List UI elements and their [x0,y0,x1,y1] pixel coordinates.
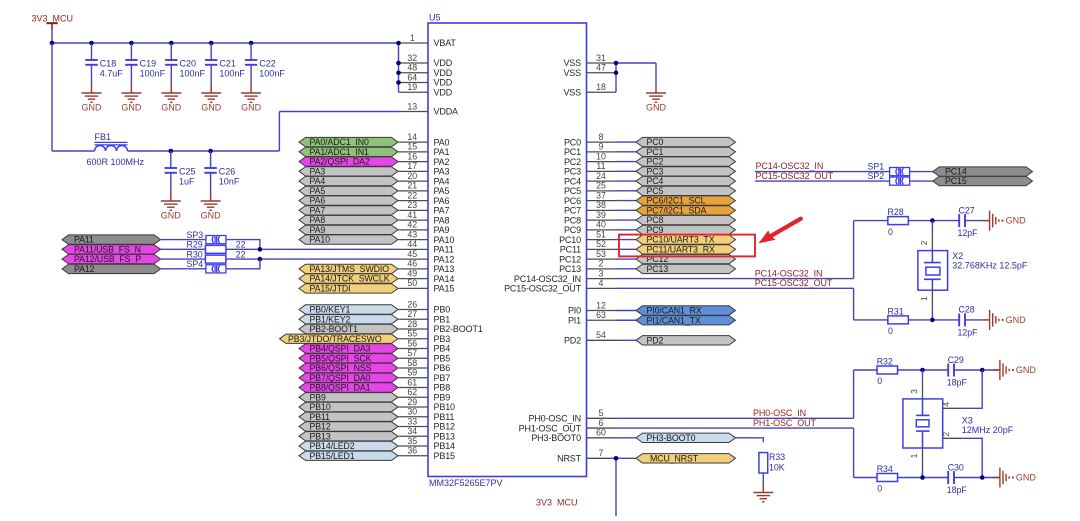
svg-text:C27: C27 [959,205,975,215]
svg-text:10nF: 10nF [219,177,240,187]
svg-text:PH3-BOOT0: PH3-BOOT0 [531,433,581,443]
svg-text:8: 8 [599,132,604,142]
svg-text:40: 40 [596,220,606,230]
wire pin6 PH1-OSC_OUT to X3 [616,428,877,477]
svg-text:PA13: PA13 [434,264,455,274]
svg-text:3: 3 [599,268,604,278]
svg-text:44: 44 [407,239,417,249]
svg-text:57: 57 [407,348,417,358]
wire PA12/USB_FS_P flag to R30 [161,258,206,260]
svg-text:PC8: PC8 [647,215,664,225]
net label PC15-OSC32_OUT (osc) [755,278,833,288]
port flag PB6/QSPI_NSS [299,363,398,373]
svg-text:PA3: PA3 [434,167,450,177]
svg-text:PA3: PA3 [310,166,326,176]
pin 16 PA2 [399,151,450,166]
wire pin to PC10/UART3_TX flag [616,239,636,241]
svg-text:PB6: PB6 [434,363,451,373]
pin 42 PA9 [399,220,450,235]
svg-text:PA0: PA0 [434,137,450,147]
port flag PB9 [299,392,398,402]
pin 12 PI0 [568,300,616,315]
svg-text:R30: R30 [187,249,203,259]
svg-text:3: 3 [910,389,919,394]
svg-text:62: 62 [407,387,417,397]
svg-text:PC11: PC11 [560,245,581,255]
svg-text:18pF: 18pF [947,378,968,388]
pin 45 PA12 [399,249,455,264]
svg-text:PB10: PB10 [434,402,456,412]
svg-text:PB12: PB12 [310,422,331,432]
port flag PA14/JTCK_SWCLK [299,274,398,284]
pin 38 PC7 [564,200,616,215]
pin 27 PB1 [399,309,451,324]
port flag PC7/I2C1_SDA [636,205,736,215]
svg-text:PB12: PB12 [434,422,456,432]
svg-text:PA15: PA15 [434,284,455,294]
svg-text:2: 2 [942,431,951,436]
pin 63 PI1 [568,310,616,325]
svg-text:SP4: SP4 [187,259,204,269]
svg-text:54: 54 [596,330,606,340]
svg-text:PC14-OSC32_IN: PC14-OSC32_IN [755,268,823,278]
port flag PI0/CAN1_RX [636,306,736,316]
junction X3 pin3 node [920,368,925,373]
capacitor C30 18pF [947,462,968,495]
svg-text:25: 25 [596,181,606,191]
svg-text:16: 16 [407,151,417,161]
pin 29 PB10 [399,397,456,412]
svg-text:R28: R28 [888,207,904,217]
wire R30 to pin PA12 [226,258,399,260]
svg-text:PC3: PC3 [647,166,664,176]
junction NRST [614,456,619,461]
svg-text:32: 32 [407,53,417,63]
ground right of C30 [993,468,1037,488]
resistor R33 10K [759,452,785,473]
pin 1 VBAT [399,33,457,48]
svg-text:SP2: SP2 [868,171,885,181]
svg-text:37: 37 [596,190,606,200]
svg-text:9: 9 [599,142,604,152]
capacitor C18 4.7uF [85,43,123,84]
svg-text:PB2-BOOT1: PB2-BOOT1 [310,324,359,334]
svg-text:C30: C30 [948,462,964,472]
svg-text:1uF: 1uF [179,177,195,187]
svg-text:PB15: PB15 [434,451,456,461]
svg-text:FB1: FB1 [95,132,112,142]
svg-text:C29: C29 [948,355,964,365]
svg-text:C22: C22 [259,59,276,69]
svg-text:53: 53 [596,249,606,259]
svg-text:PA7: PA7 [434,206,450,216]
svg-text:GND: GND [646,102,667,112]
svg-text:PC4: PC4 [564,176,581,186]
junction X3 pin1 node [920,475,925,480]
svg-text:PB6/QSPI_NSS: PB6/QSPI_NSS [310,363,372,373]
svg-text:VSS: VSS [563,58,581,68]
ground below C20 [161,84,182,113]
svg-text:12pF: 12pF [958,328,979,338]
svg-text:C26: C26 [219,167,236,177]
svg-text:C21: C21 [219,59,236,69]
svg-text:PA2: PA2 [434,157,450,167]
wire pin to PI1/CAN1_TX flag [616,319,636,321]
junction X3 pin2 node [980,475,985,480]
junction C25 at VDDA rail [169,149,174,154]
ground below R33 [753,483,773,502]
wire PC14-OSC32_IN to SP1 [755,171,890,173]
junction C26 at VDDA rail [208,149,213,154]
svg-text:100nF: 100nF [180,69,206,79]
svg-text:PB1/KEY2: PB1/KEY2 [310,314,351,324]
port flag PC11/UART3_RX [636,244,736,254]
svg-text:PC14-OSC32_IN: PC14-OSC32_IN [514,274,581,284]
svg-text:NRST: NRST [557,454,582,464]
port flag PC0 [636,137,736,147]
port flag PB5/QSPI_SCK [299,353,398,363]
pin 36 PB15 [399,446,456,461]
port flag PA2/QSPI_DA2 [299,157,398,167]
svg-text:PC15-OSC32_OUT: PC15-OSC32_OUT [504,284,582,294]
port flag PB2-BOOT1 [299,324,398,334]
svg-text:23: 23 [407,200,417,210]
svg-text:PI1: PI1 [568,315,581,325]
port flag PA11 [62,235,161,245]
crystal X2 32.768KHz 12.5pF [918,221,1028,320]
svg-text:PA5: PA5 [310,186,326,196]
svg-text:45: 45 [407,249,417,259]
svg-text:PA15/JTDI: PA15/JTDI [310,283,351,293]
svg-text:PA0/ADC1_IN0: PA0/ADC1_IN0 [310,137,369,147]
svg-text:22: 22 [407,190,417,200]
svg-text:PB7/QSPI_DA0: PB7/QSPI_DA0 [310,373,371,383]
svg-text:PC7: PC7 [564,206,581,216]
ground right of C28 [983,310,1027,330]
svg-text:GND: GND [1016,365,1037,375]
svg-text:26: 26 [407,299,417,309]
wire pin to PI0/CAN1_RX flag [616,310,636,312]
port flag PB12 [299,422,398,432]
ground below C25 [161,192,182,221]
pin 2 PC13 [559,259,616,274]
pin 33 PB12 [399,416,456,431]
svg-text:PB2-BOOT1: PB2-BOOT1 [434,324,483,334]
wire R32 to C29 [898,369,949,371]
svg-text:VDD: VDD [434,78,453,88]
svg-text:PC13: PC13 [647,264,669,274]
svg-text:PC4: PC4 [647,176,664,186]
svg-text:12: 12 [596,300,606,310]
wire pin to PC5 flag [616,190,636,192]
svg-text:41: 41 [407,210,417,220]
ferrite bead FB1 600R 100MHz [87,132,145,167]
pin 50 PA15 [399,278,455,293]
pin 57 PB5 [399,348,451,363]
svg-text:5: 5 [599,408,604,418]
pin 52 PC11 [560,239,616,254]
svg-text:PC2: PC2 [564,157,581,167]
svg-text:PA5: PA5 [434,186,450,196]
pin 19 VDD [399,82,453,97]
svg-text:PC1: PC1 [564,147,581,157]
port flag PB14/LED2 [299,441,398,451]
wire pin3 PC14-OSC32_IN to X2 [616,221,888,279]
svg-text:PB4/QSPI_DA3: PB4/QSPI_DA3 [310,344,371,354]
wire pin5 PH0-OSC_IN to X3 [616,370,877,418]
svg-text:PC10/UART3_TX: PC10/UART3_TX [647,235,715,245]
wire SP1 to PC14 flag [910,171,933,173]
wire 3V3 rail down to FB1 [52,43,95,151]
wire pin4 PC15-OSC32_OUT to X2 [616,288,888,320]
pin 6 PH1-OSC_OUT [519,418,616,433]
svg-text:38: 38 [596,200,606,210]
svg-text:28: 28 [407,319,417,329]
svg-text:GND: GND [201,210,222,220]
port flag PB13 [299,431,398,441]
junction at power port [50,41,55,46]
svg-text:1: 1 [910,453,919,458]
port flag PA12/USB_FS_P [62,254,161,264]
svg-text:PC0: PC0 [564,137,581,147]
pin 3 PC14-OSC32_IN [514,268,616,283]
pin 25 PC5 [564,181,616,196]
svg-text:C25: C25 [179,167,196,177]
pin 20 PA4 [399,171,450,186]
port flag PC12 [636,254,736,264]
svg-text:GND: GND [161,210,182,220]
svg-text:PA11: PA11 [434,245,454,255]
wire pin to PC1 flag [616,151,636,153]
svg-text:PA14/JTCK_SWCLK: PA14/JTCK_SWCLK [310,274,390,284]
svg-text:PA8: PA8 [434,215,450,225]
solder jumper SP4 [187,259,226,273]
pin 9 PC1 [564,142,616,157]
svg-text:22: 22 [236,249,246,259]
svg-text:51: 51 [596,229,606,239]
pin 17 PA3 [399,161,450,176]
svg-text:C18: C18 [100,59,117,69]
pin 58 PB6 [399,358,451,373]
wire R33 to GND [762,473,764,483]
svg-text:GND: GND [82,102,103,112]
svg-text:14: 14 [407,132,417,142]
pin 61 PB8 [399,377,451,392]
svg-text:55: 55 [407,329,417,339]
port flag PA1/ADC1_IN1 [299,147,398,157]
wire pin to PC8 flag [616,219,636,221]
wire pin to PC7/I2C1_SDA flag [616,209,636,211]
wire VSS bus [616,63,656,92]
svg-text:60: 60 [596,428,606,438]
svg-text:100nF: 100nF [140,69,166,79]
port flag PA15/JTDI [299,283,398,293]
wire pin to PC11/UART3_RX flag [616,248,636,250]
svg-text:PB5: PB5 [434,353,451,363]
svg-text:C19: C19 [140,59,157,69]
svg-text:R34: R34 [877,464,893,474]
junction VSS31 [614,61,619,66]
svg-text:MM32F5265E7PV: MM32F5265E7PV [429,478,503,488]
svg-text:PB11: PB11 [310,412,331,422]
svg-text:PC15-OSC32_OUT: PC15-OSC32_OUT [755,278,833,288]
port flag PC5 [636,186,736,196]
svg-text:PC11/UART3_RX: PC11/UART3_RX [647,244,716,254]
svg-text:1: 1 [920,296,929,301]
svg-text:0: 0 [877,376,882,386]
pin 22 PA6 [399,190,450,205]
junction PA12 net [258,257,263,262]
capacitor C28 12pF [958,305,979,338]
junction VDD48 [396,70,401,75]
svg-text:63: 63 [596,310,606,320]
svg-text:PB9: PB9 [434,392,451,402]
pin 34 PB13 [399,426,456,441]
port flag PC2 [636,157,736,167]
svg-text:19: 19 [407,82,417,92]
resistor R29 22 [187,240,246,254]
pin 35 PB14 [399,436,456,451]
net label PC15-OSC32_OUT (top) [756,171,834,181]
port flag PC13 [636,264,736,274]
svg-text:42: 42 [407,220,417,230]
port flag PA4 [299,176,398,186]
capacitor C29 18pF [947,355,968,388]
svg-text:PB0/KEY1: PB0/KEY1 [310,305,351,315]
svg-text:PH0-OSC_IN: PH0-OSC_IN [528,414,581,424]
port flag PC8 [636,215,736,225]
svg-text:PC15-OSC32_OUT: PC15-OSC32_OUT [756,171,834,181]
pin 31 VSS [563,53,616,68]
pin 5 PH0-OSC_IN [528,408,616,423]
svg-text:PC9: PC9 [647,225,664,235]
pin 60 PH3-BOOT0 [531,428,616,443]
svg-text:PB15/LED1: PB15/LED1 [310,451,355,461]
svg-text:PH3-BOOT0: PH3-BOOT0 [647,433,696,443]
port flag PA10 [299,235,398,245]
pin 23 PA7 [399,200,450,215]
svg-text:PC9: PC9 [564,225,581,235]
svg-text:18pF: 18pF [947,485,968,495]
crystal X3 12MHz 20pF [903,370,1014,478]
svg-text:7: 7 [599,448,604,458]
svg-text:1: 1 [410,33,415,43]
wire pin to PC12 flag [616,258,636,260]
svg-text:PB4: PB4 [434,344,451,354]
svg-text:3V3 MCU: 3V3 MCU [536,498,578,508]
junction C18 at rail [89,41,94,46]
port flag PB1/KEY2 [299,314,398,324]
svg-text:PC2: PC2 [647,157,664,167]
svg-text:GND: GND [201,102,222,112]
wire SP2 to PC15 flag [910,180,933,182]
svg-text:PC5: PC5 [647,186,664,196]
pin 32 VDD [399,53,453,68]
wire R28 to C27 [908,220,959,222]
svg-text:PC10: PC10 [559,235,581,245]
port flag MCU_NRST [636,453,736,463]
svg-text:52: 52 [596,239,606,249]
pin 21 PA5 [399,181,450,196]
wire FB1 output to VDDA pin [128,112,399,152]
svg-text:24: 24 [596,171,606,181]
junction PA11 net [258,247,263,252]
svg-text:PA13/JTMS_SWDIO: PA13/JTMS_SWDIO [310,264,390,274]
wire C30 to GND [954,477,1000,479]
svg-text:PB13: PB13 [310,431,331,441]
wire pin to PC6/I2C1_SCL flag [616,200,636,202]
ground VSS [646,84,667,113]
svg-text:0: 0 [888,227,893,237]
resistor R31 0 [888,307,909,337]
port flag PA12 [62,264,161,274]
port flag PI1/CAN1_TX [636,315,736,325]
svg-text:61: 61 [407,377,417,387]
ground below C19 [121,84,142,113]
net label PC14-OSC32_IN (osc) [755,268,823,278]
svg-text:56: 56 [407,338,417,348]
ground right of C29 [993,360,1037,380]
svg-text:PB0: PB0 [434,305,451,315]
pin 18 VSS [563,82,616,97]
svg-text:PA8: PA8 [310,215,326,225]
wire pin to PC3 flag [616,170,636,172]
resistor R32 0 [877,357,898,387]
port flag PC9 [636,225,736,235]
port flag PC3 [636,166,736,176]
svg-text:GND: GND [1016,473,1037,483]
svg-text:59: 59 [407,368,417,378]
svg-text:PC6: PC6 [564,196,581,206]
svg-text:PC0: PC0 [647,137,664,147]
svg-text:PA11/USB_FS_N: PA11/USB_FS_N [74,244,141,254]
port flag PA3 [299,166,398,176]
svg-text:2: 2 [920,240,929,245]
svg-text:PB14: PB14 [434,441,456,451]
port flag PA0/ADC1_IN0 [299,137,398,147]
wire C27 to GND [965,220,983,222]
svg-text:46: 46 [407,259,417,269]
wire PA12 flag to SP4 [161,268,206,270]
svg-text:SP3: SP3 [187,230,204,240]
junction X2 pin1 node [930,318,935,323]
svg-text:R32: R32 [877,357,893,367]
resistor R28 0 [888,207,909,237]
svg-text:11: 11 [596,161,605,171]
svg-text:PC7/I2C1_SDA: PC7/I2C1_SDA [647,205,707,215]
capacitor C22 100nF [245,43,285,84]
svg-text:PA12: PA12 [434,254,455,264]
port flag PB8/QSPI_DA1 [299,383,398,393]
svg-text:PA14: PA14 [434,274,455,284]
svg-text:12pF: 12pF [958,228,979,238]
svg-text:PA6: PA6 [434,196,450,206]
red annotation arrow [759,219,801,244]
ground below C22 [241,84,262,113]
pin 48 VDD [399,63,453,78]
capacitor C21 100nF [205,43,245,84]
wire pin to PC2 flag [616,161,636,163]
pin 49 PA14 [399,268,455,283]
junction C21 at rail [209,41,214,46]
resistor R34 0 [877,464,898,494]
svg-text:PA9: PA9 [434,225,450,235]
port flag PB3/JTDO/TRACESWO [280,334,399,344]
svg-text:PA6: PA6 [310,196,326,206]
junction C20 at rail [169,41,174,46]
svg-text:GND: GND [161,102,182,112]
svg-text:PC3: PC3 [564,167,581,177]
